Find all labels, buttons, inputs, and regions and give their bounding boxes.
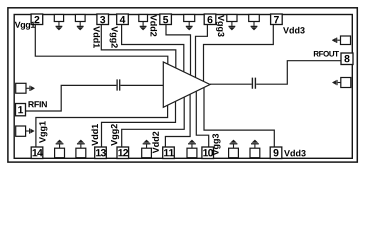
ground bottom B1 — [56, 140, 64, 148]
pad bottom B4 — [187, 148, 197, 158]
pin 8 box — [341, 53, 353, 65]
pin number 9 — [273, 149, 278, 156]
label Vdd1 bottom rotated — [91, 124, 98, 146]
wire Vdd1 pin13 to amp stage1 drain — [102, 101, 176, 147]
pad bottom B2 — [76, 148, 86, 158]
ground top F — [251, 22, 258, 30]
pin number 11 — [164, 149, 174, 156]
pad left lower RF probe — [16, 126, 26, 136]
pad top D — [184, 15, 195, 22]
ground bottom B6 — [251, 140, 259, 148]
wire Vdd3 pin9 to amp stage3 drain — [204, 87, 274, 147]
outer border frame — [8, 8, 357, 162]
label Vdd3 bottom — [284, 150, 306, 157]
ground top D — [186, 22, 193, 30]
pin number 1 — [18, 106, 23, 113]
inner chip boundary frame — [14, 15, 352, 159]
pin number 5 — [163, 16, 168, 23]
wire amp output — [210, 83, 252, 85]
pin 13 box — [95, 147, 107, 159]
wire Vdd2 pin11 to amp stage2 drain — [165, 94, 190, 147]
RF probe symbol right upper — [332, 38, 340, 43]
label Vgg2 top rotated — [110, 26, 118, 48]
label Vgg2 bottom rotated — [111, 124, 119, 146]
inverted ground symbols above bottom pads — [56, 140, 259, 148]
wire Vdd1 pin3 to amp stage1 drain — [101, 25, 176, 68]
pad bottom B5 — [229, 148, 239, 158]
ground top A — [56, 22, 63, 30]
wire Vgg3 pin6 to amp stage3 gate — [196, 25, 208, 78]
pin 9 box — [270, 147, 282, 159]
wire RFOUT to pin8 — [256, 61, 341, 84]
label Vgg1 top — [15, 22, 35, 30]
wire Vgg2 pin4 to amp stage2 gate — [122, 25, 184, 72]
ground top C — [140, 22, 147, 30]
pin 7 box — [271, 14, 283, 25]
pin number 4 — [120, 16, 126, 23]
pin number 10 — [203, 149, 213, 156]
RF probe symbol right lower — [332, 80, 340, 85]
pin 4 box — [117, 14, 129, 25]
pin number 12 — [118, 149, 128, 156]
label RFIN — [28, 101, 46, 107]
label Vgg1 bottom rotated — [39, 121, 47, 143]
pad bottom B6 — [250, 148, 260, 158]
wire Vgg2 pin12 to amp stage2 gate — [122, 97, 185, 147]
label RFOUT — [314, 51, 339, 57]
pin number 7 — [274, 16, 279, 23]
pin 12 box — [117, 147, 129, 159]
capacitor C1 input DC block — [117, 79, 120, 90]
label Vgg3 bottom rotated — [212, 134, 220, 156]
pad top B — [75, 15, 85, 22]
pad right lower RF probe — [341, 78, 351, 88]
wire Vdd3 pin7 to amp stage3 drain — [204, 25, 274, 81]
wire input cap to amp — [120, 84, 163, 86]
ground symbols under top pads — [56, 22, 258, 30]
pin number 14 — [33, 149, 43, 156]
ground bottom B3 — [143, 140, 151, 148]
pad bottom B3 — [142, 148, 152, 158]
pin 1 box — [16, 104, 26, 116]
op-amp U1 amplifier triangle — [163, 62, 210, 107]
label Vdd2 bottom rotated — [152, 132, 159, 154]
ground bottom B5 — [230, 140, 238, 148]
pin 6 box — [204, 14, 216, 25]
ground bottom B2 — [77, 140, 85, 148]
pin 14 box — [31, 147, 43, 159]
pad right upper RF probe — [341, 36, 351, 45]
wire Vgg1 pin2 to amp stage1 gate — [35, 25, 168, 65]
pad bottom B1 — [55, 148, 65, 158]
label Vdd1 top rotated — [93, 26, 100, 48]
pin 3 box — [97, 14, 109, 25]
pin number 8 — [344, 55, 349, 62]
ground bottom B4 — [188, 140, 196, 148]
pin number 13 — [96, 149, 106, 156]
label Vgg3 top rotated — [216, 15, 224, 37]
pin 10 box — [202, 147, 214, 159]
RF probe symbol left upper — [26, 86, 35, 91]
pin number 3 — [100, 16, 105, 23]
wire Vgg3 pin10 to amp stage3 gate — [196, 91, 208, 147]
label Vdd3 top — [283, 27, 305, 34]
pin number 2 — [34, 16, 39, 23]
wire Vgg1 pin14 to amp stage1 gate — [36, 105, 168, 147]
pad top A — [54, 15, 63, 22]
ground top E — [229, 22, 236, 30]
pad top E — [227, 15, 237, 22]
capacitor C2 output DC block — [252, 78, 255, 89]
pad left upper RF probe — [16, 83, 26, 93]
pin number 6 — [207, 16, 212, 23]
pad top C — [139, 15, 148, 22]
RF probe symbol left lower — [26, 128, 35, 133]
pin 11 box — [163, 147, 175, 159]
pin 2 box — [31, 14, 43, 25]
pad top F — [249, 15, 260, 22]
wire Vdd2 pin5 to amp stage2 drain — [166, 25, 191, 76]
label Vdd2 top rotated — [150, 15, 157, 37]
ground top B — [77, 22, 84, 30]
wire RFIN input — [26, 85, 117, 111]
pin 5 box — [160, 14, 172, 25]
